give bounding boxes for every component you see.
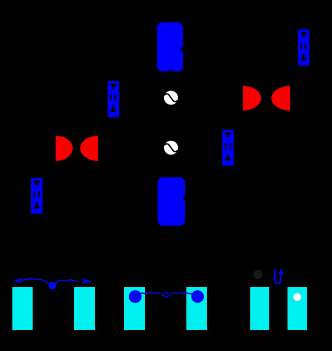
red coupler bowtie left: left half — [56, 136, 73, 161]
tunneling arrow group 1 (double-headed wavy arrow) — [21, 279, 78, 285]
U-turn arrow (return tunneling) — [275, 270, 281, 284]
red coupler bowtie left: right half — [80, 136, 98, 161]
red coupler bowtie right: left half — [243, 86, 261, 111]
electrode 1 — [12, 287, 32, 330]
ghost dot (vacated site) left of U arrow — [253, 270, 262, 279]
ac source V2 — [164, 141, 178, 155]
wire notch on right edge of bottom box — [183, 197, 185, 200]
tunnel junction J4 (bottom left) — [31, 178, 43, 214]
electron dot on group 1 arrow — [49, 282, 57, 290]
electrode 3 — [124, 287, 145, 330]
wire notch on right edge of top box — [181, 47, 183, 51]
arrowhead left of group 1 arrow — [12, 278, 22, 284]
wire notch on bottom edge of top box — [169, 70, 173, 72]
resonator box bottom (cavity 2) — [158, 177, 185, 226]
resonator box top (cavity 1) — [157, 22, 183, 71]
electrode 2 — [74, 287, 95, 330]
electrode 5 — [250, 287, 269, 330]
tunnel junction J1 (left of cavity 1) — [108, 81, 120, 117]
red coupler bowtie right: right half — [271, 86, 290, 111]
electron dot on electrode 3 — [129, 290, 142, 303]
tunneling wavy line between electron dots (group 2) — [139, 293, 194, 298]
arrowhead of U-turn arrow — [278, 268, 284, 275]
ac source V1 — [164, 91, 178, 105]
tunnel junction J3 (right middle) — [222, 130, 234, 166]
electron dot on electrode 4 — [191, 290, 204, 303]
tunnel junction J2 (top right) — [298, 30, 310, 66]
electrode 6 — [288, 287, 308, 330]
hole (white dot) on electrode 6 — [293, 293, 301, 301]
electrode 4 — [186, 287, 207, 330]
arrowhead right of group 1 arrow — [82, 278, 92, 284]
